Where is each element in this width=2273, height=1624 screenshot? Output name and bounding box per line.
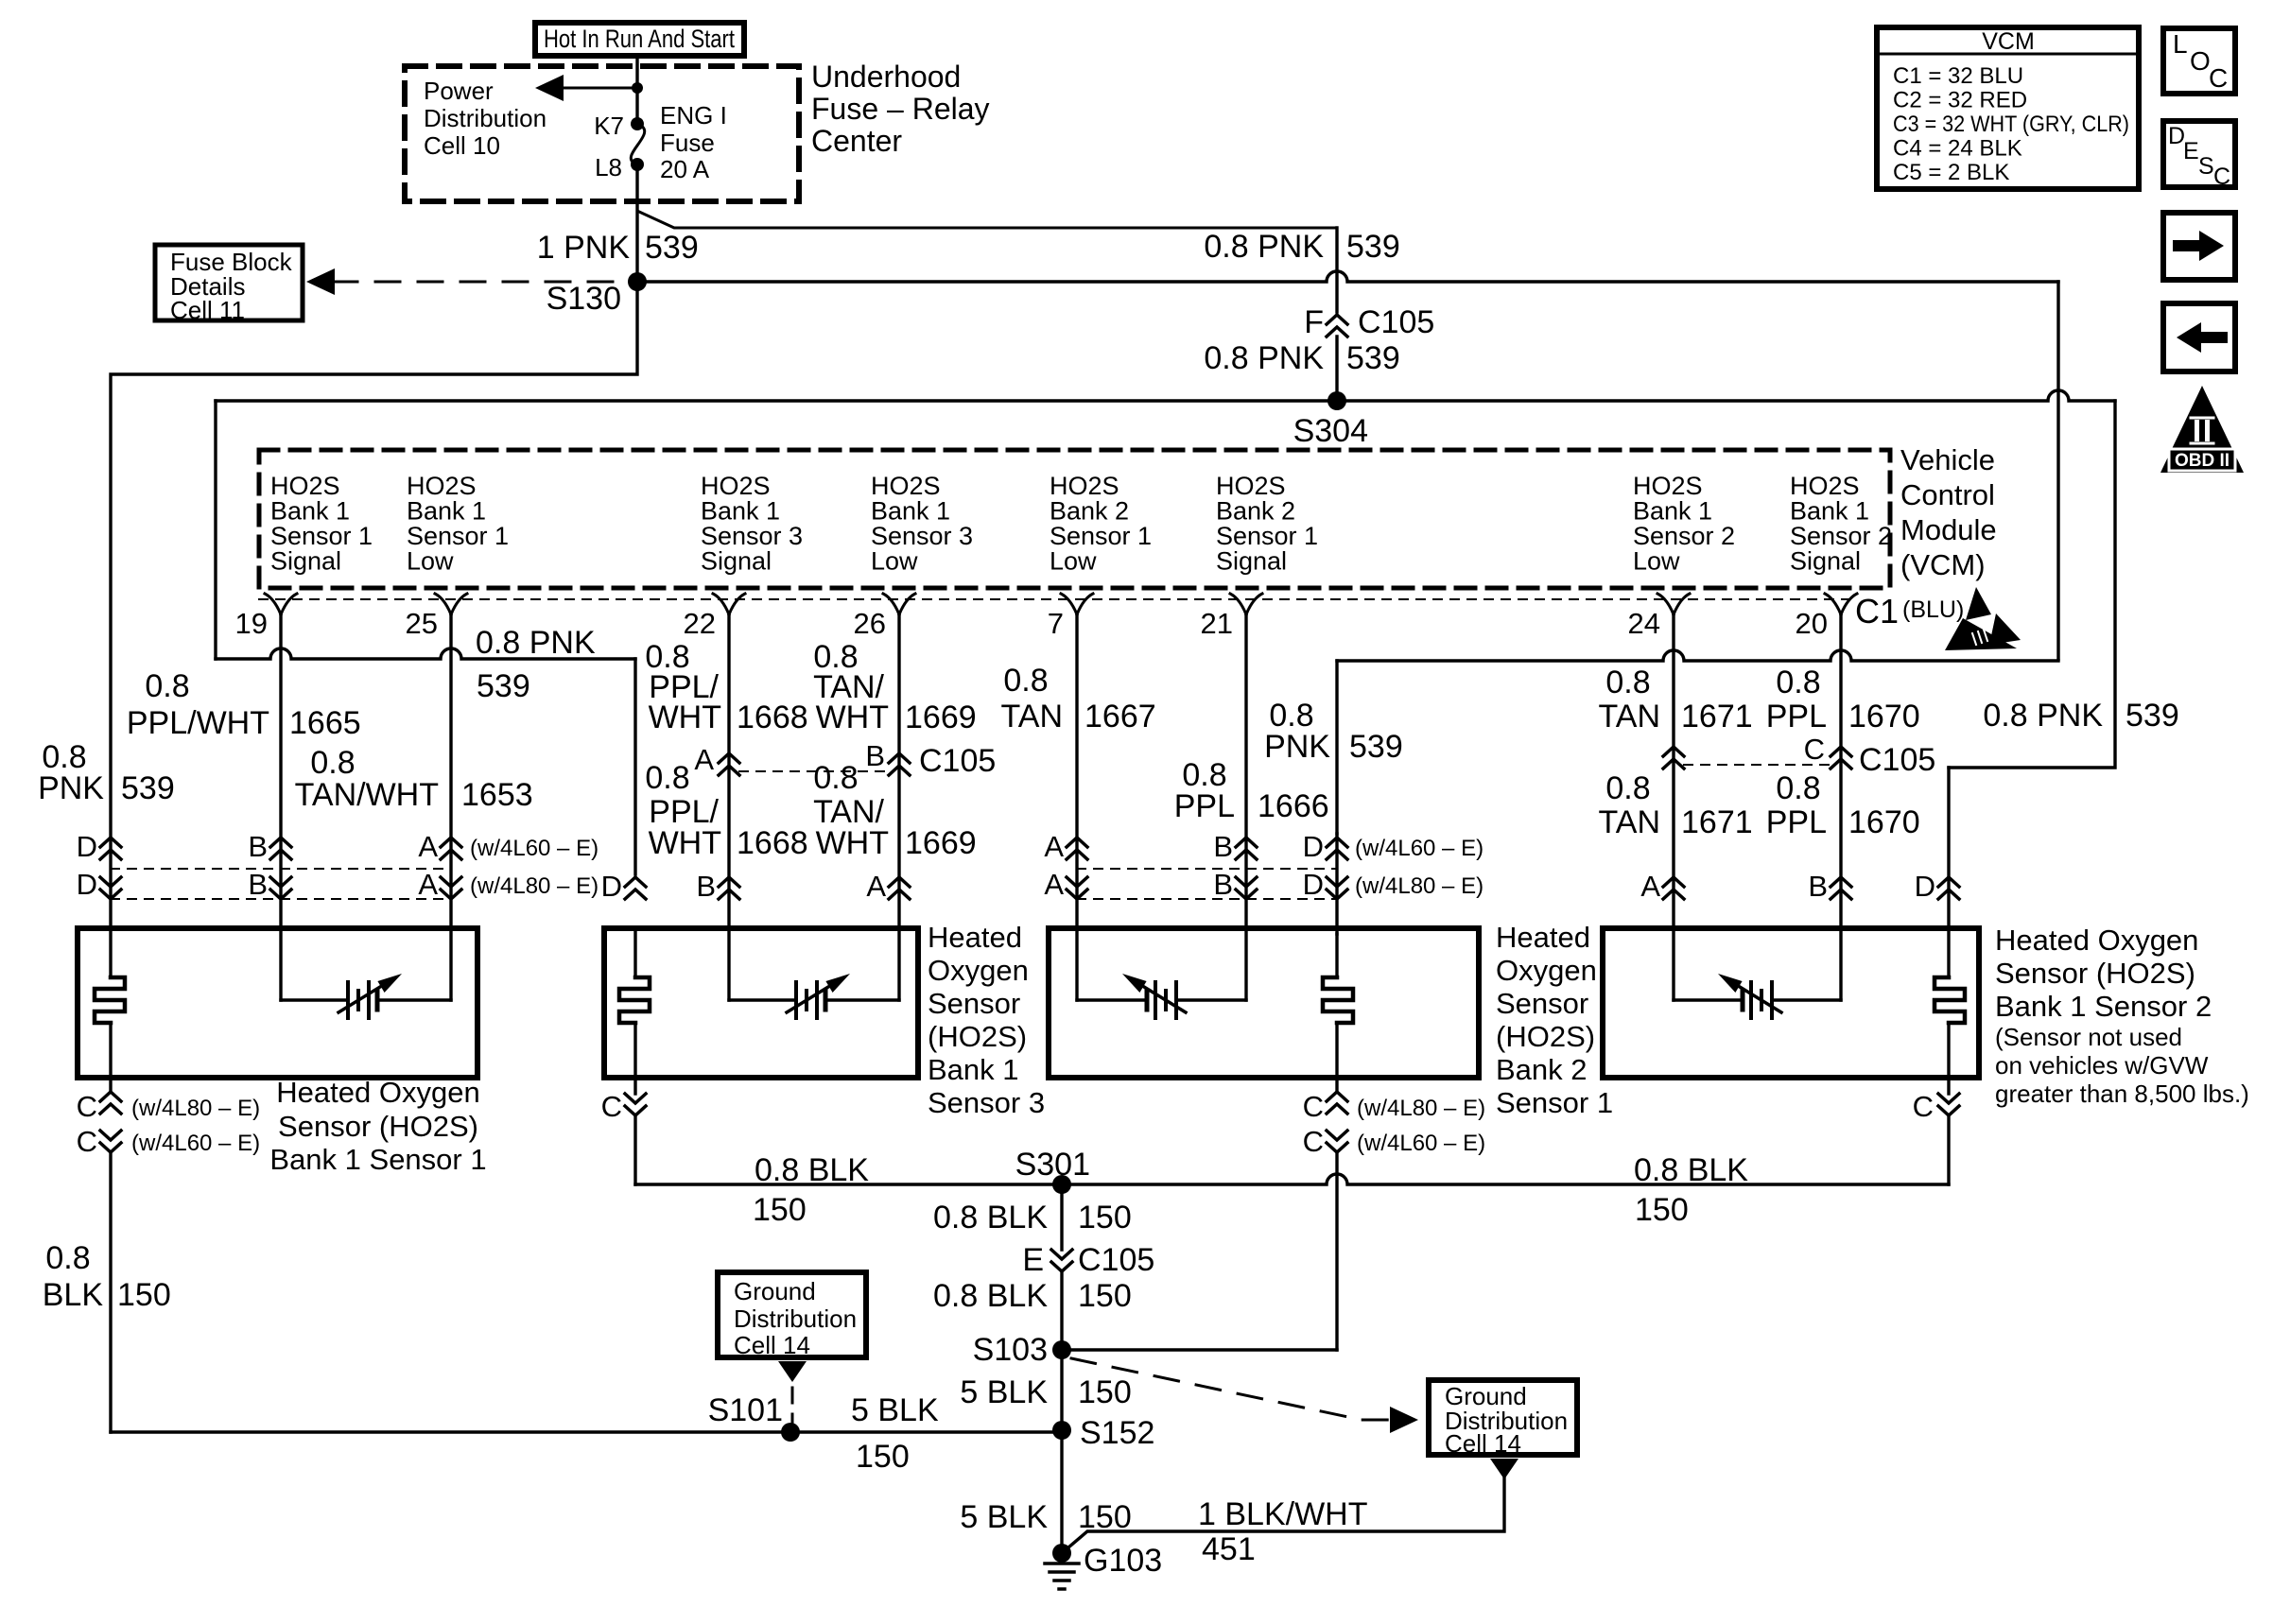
svg-text:1665: 1665 <box>289 705 361 741</box>
svg-text:C105: C105 <box>1078 1242 1154 1278</box>
svg-text:Bank 2: Bank 2 <box>1496 1053 1588 1086</box>
svg-text:D: D <box>1303 868 1324 901</box>
svg-text:C: C <box>2209 63 2228 93</box>
svg-text:Fuse: Fuse <box>660 129 715 157</box>
svg-text:L8: L8 <box>595 153 622 181</box>
svg-text:C1 = 32 BLU: C1 = 32 BLU <box>1893 63 2023 89</box>
svg-text:5 BLK: 5 BLK <box>960 1374 1048 1410</box>
svg-text:D: D <box>77 830 97 863</box>
svg-text:(w/4L60 – E): (w/4L60 – E) <box>1357 1131 1485 1156</box>
svg-text:L: L <box>2173 29 2188 59</box>
svg-text:1671: 1671 <box>1681 804 1753 840</box>
svg-text:PPL: PPL <box>1766 804 1827 840</box>
svg-text:539: 539 <box>121 770 175 806</box>
svg-text:Bank 1: Bank 1 <box>1790 497 1869 526</box>
svg-text:1666: 1666 <box>1258 788 1329 824</box>
svg-text:C: C <box>77 1090 97 1123</box>
svg-text:539: 539 <box>645 230 699 266</box>
svg-text:Sensor 1: Sensor 1 <box>407 522 509 550</box>
svg-text:PNK: PNK <box>38 770 104 806</box>
svg-text:150: 150 <box>753 1192 807 1228</box>
svg-text:C: C <box>1913 1090 1934 1123</box>
svg-text:(w/4L60 – E): (w/4L60 – E) <box>1355 836 1484 861</box>
svg-text:150: 150 <box>1078 1374 1132 1410</box>
svg-text:0.8 BLK: 0.8 BLK <box>933 1278 1048 1314</box>
svg-text:PPL: PPL <box>1174 788 1235 824</box>
svg-text:Signal: Signal <box>1790 547 1861 576</box>
svg-text:A: A <box>1044 868 1064 901</box>
svg-text:BLK: BLK <box>43 1277 104 1313</box>
svg-text:Distribution: Distribution <box>424 104 547 132</box>
svg-text:C: C <box>1303 1090 1324 1123</box>
svg-text:Bank 1: Bank 1 <box>1633 497 1712 526</box>
svg-text:Power: Power <box>424 77 494 105</box>
svg-text:7: 7 <box>1048 607 1064 640</box>
svg-text:0.8: 0.8 <box>1605 770 1650 806</box>
svg-text:TAN: TAN <box>1001 699 1063 734</box>
svg-text:Signal: Signal <box>1216 547 1287 576</box>
svg-text:Bank 1 Sensor 2: Bank 1 Sensor 2 <box>1995 990 2212 1023</box>
svg-text:B: B <box>248 830 268 863</box>
svg-text:539: 539 <box>1346 340 1400 376</box>
svg-text:Heated Oxygen: Heated Oxygen <box>1995 924 2198 957</box>
svg-text:Cell 10: Cell 10 <box>424 131 500 160</box>
svg-text:1669: 1669 <box>905 700 977 735</box>
svg-text:(HO2S): (HO2S) <box>1496 1020 1595 1053</box>
svg-text:Cell 14: Cell 14 <box>734 1331 810 1359</box>
svg-text:C1: C1 <box>1855 592 1899 631</box>
svg-text:D: D <box>1915 870 1935 903</box>
svg-text:C: C <box>2213 164 2230 190</box>
svg-text:O: O <box>2190 46 2211 76</box>
svg-text:0.8: 0.8 <box>1003 663 1048 699</box>
svg-text:Low: Low <box>407 547 454 576</box>
svg-text:S103: S103 <box>973 1332 1048 1368</box>
svg-text:(w/4L80 – E): (w/4L80 – E) <box>470 873 599 899</box>
svg-text:C2 = 32 RED: C2 = 32 RED <box>1893 88 2027 113</box>
svg-text:OBD II: OBD II <box>2175 451 2230 471</box>
svg-text:Center: Center <box>811 124 902 158</box>
svg-text:B: B <box>696 870 716 903</box>
svg-text:B: B <box>248 868 268 901</box>
svg-text:C105: C105 <box>1859 742 1935 778</box>
svg-text:HO2S: HO2S <box>1790 472 1860 500</box>
svg-text:HO2S: HO2S <box>1050 472 1119 500</box>
svg-text:Sensor 1: Sensor 1 <box>1050 522 1152 550</box>
svg-text:0.8 BLK: 0.8 BLK <box>933 1200 1048 1235</box>
svg-text:HO2S: HO2S <box>1633 472 1703 500</box>
svg-text:TAN: TAN <box>1599 804 1660 840</box>
svg-text:0.8 BLK: 0.8 BLK <box>755 1152 869 1188</box>
svg-text:C5 = 2 BLK: C5 = 2 BLK <box>1893 160 2009 185</box>
svg-text:0.8: 0.8 <box>1776 665 1820 700</box>
svg-text:A: A <box>1640 870 1660 903</box>
svg-text:0.8 PNK: 0.8 PNK <box>1204 340 1324 376</box>
svg-text:E: E <box>2183 138 2199 164</box>
svg-text:Control: Control <box>1900 478 1995 511</box>
svg-text:0.8 BLK: 0.8 BLK <box>1634 1152 1748 1188</box>
svg-text:WHT: WHT <box>816 700 889 735</box>
svg-text:(HO2S): (HO2S) <box>928 1020 1027 1053</box>
svg-text:S: S <box>2198 153 2214 180</box>
svg-text:(VCM): (VCM) <box>1900 548 1986 581</box>
svg-text:A: A <box>418 830 438 863</box>
svg-text:HO2S: HO2S <box>407 472 477 500</box>
svg-text:150: 150 <box>1078 1278 1132 1314</box>
svg-text:5 BLK: 5 BLK <box>851 1392 939 1428</box>
svg-text:D: D <box>1303 830 1324 863</box>
svg-text:(w/4L80 – E): (w/4L80 – E) <box>1357 1096 1485 1121</box>
svg-text:HO2S: HO2S <box>871 472 941 500</box>
svg-text:VCM: VCM <box>1982 28 2035 55</box>
svg-text:on vehicles w/GVW: on vehicles w/GVW <box>1995 1051 2209 1080</box>
svg-text:HO2S: HO2S <box>270 472 340 500</box>
svg-text:Bank 1: Bank 1 <box>407 497 486 526</box>
svg-text:Ground: Ground <box>734 1277 816 1305</box>
svg-text:D: D <box>601 870 622 903</box>
svg-text:Heated: Heated <box>1496 921 1590 954</box>
svg-text:Sensor 1: Sensor 1 <box>270 522 373 550</box>
svg-text:Module: Module <box>1900 513 1997 546</box>
svg-text:S301: S301 <box>1015 1147 1090 1183</box>
svg-text:Cell 11: Cell 11 <box>170 296 245 324</box>
svg-text:A: A <box>1044 830 1064 863</box>
svg-text:1 BLK/WHT: 1 BLK/WHT <box>1198 1496 1367 1532</box>
svg-text:S152: S152 <box>1080 1415 1154 1451</box>
svg-text:Sensor 2: Sensor 2 <box>1790 522 1892 550</box>
svg-text:Cell 14: Cell 14 <box>1445 1429 1521 1458</box>
svg-text:5 BLK: 5 BLK <box>960 1499 1048 1535</box>
svg-text:S101: S101 <box>708 1392 783 1428</box>
svg-text:Sensor (HO2S): Sensor (HO2S) <box>1995 957 2195 990</box>
svg-text:C: C <box>1804 733 1825 766</box>
svg-text:Signal: Signal <box>270 547 341 576</box>
svg-text:B: B <box>1213 830 1233 863</box>
svg-text:Bank 1 Sensor 1: Bank 1 Sensor 1 <box>269 1143 486 1176</box>
svg-text:TAN: TAN <box>1599 699 1660 734</box>
svg-text:Heated: Heated <box>928 921 1022 954</box>
svg-text:HO2S: HO2S <box>1216 472 1286 500</box>
svg-text:Underhood: Underhood <box>811 60 961 94</box>
svg-text:(Sensor not used: (Sensor not used <box>1995 1023 2182 1051</box>
svg-text:G103: G103 <box>1084 1543 1162 1579</box>
svg-text:26: 26 <box>854 607 886 640</box>
svg-text:Bank 1: Bank 1 <box>928 1053 1019 1086</box>
svg-text:1 PNK: 1 PNK <box>537 230 631 266</box>
svg-text:Distribution: Distribution <box>734 1304 857 1333</box>
svg-text:greater than 8,500 lbs.): greater than 8,500 lbs.) <box>1995 1080 2249 1108</box>
svg-text:Hot In Run And Start: Hot In Run And Start <box>544 25 735 53</box>
svg-text:S130: S130 <box>547 281 621 317</box>
svg-text:1668: 1668 <box>737 700 808 735</box>
svg-text:150: 150 <box>117 1277 171 1313</box>
svg-text:0.8: 0.8 <box>1605 665 1650 700</box>
svg-text:C: C <box>77 1125 97 1158</box>
svg-text:0.8: 0.8 <box>145 668 189 704</box>
svg-text:A: A <box>694 743 714 776</box>
svg-text:539: 539 <box>477 668 530 704</box>
svg-text:539: 539 <box>2126 698 2179 734</box>
svg-text:Bank 2: Bank 2 <box>1050 497 1129 526</box>
svg-text:24: 24 <box>1628 607 1660 640</box>
svg-text:539: 539 <box>1346 229 1400 265</box>
svg-text:F: F <box>1304 304 1324 340</box>
svg-text:150: 150 <box>1635 1192 1689 1228</box>
svg-text:0.8: 0.8 <box>645 760 689 796</box>
svg-text:A: A <box>418 868 438 901</box>
svg-text:TAN/WHT: TAN/WHT <box>295 777 439 813</box>
svg-text:22: 22 <box>684 607 716 640</box>
svg-text:0.8: 0.8 <box>1776 770 1820 806</box>
svg-text:HO2S: HO2S <box>701 472 771 500</box>
svg-text:Sensor 3: Sensor 3 <box>928 1086 1045 1119</box>
svg-text:0.8 PNK: 0.8 PNK <box>1983 698 2103 734</box>
svg-text:S304: S304 <box>1293 413 1368 449</box>
svg-text:25: 25 <box>406 607 438 640</box>
svg-text:1670: 1670 <box>1848 804 1920 840</box>
svg-text:0.8 PNK: 0.8 PNK <box>1204 229 1324 265</box>
svg-text:PNK: PNK <box>1264 729 1330 765</box>
svg-text:0.8: 0.8 <box>813 760 858 796</box>
svg-text:21: 21 <box>1201 607 1233 640</box>
svg-text:Bank 1: Bank 1 <box>701 497 780 526</box>
svg-text:Heated Oxygen: Heated Oxygen <box>276 1076 479 1109</box>
svg-text:1653: 1653 <box>461 777 533 813</box>
svg-text:D: D <box>77 868 97 901</box>
svg-text:Oxygen: Oxygen <box>1496 954 1597 987</box>
svg-text:WHT: WHT <box>649 700 721 735</box>
svg-text:C3 = 32 WHT (GRY, CLR): C3 = 32 WHT (GRY, CLR) <box>1893 112 2129 137</box>
svg-text:ENG I: ENG I <box>660 101 727 130</box>
svg-text:Fuse – Relay: Fuse – Relay <box>811 92 990 126</box>
svg-text:1670: 1670 <box>1848 699 1920 734</box>
svg-text:1668: 1668 <box>737 825 808 861</box>
svg-text:150: 150 <box>856 1439 910 1475</box>
svg-text:0.8: 0.8 <box>310 745 355 781</box>
svg-text:451: 451 <box>1202 1531 1256 1567</box>
svg-text:C: C <box>1303 1125 1324 1158</box>
svg-text:PPL: PPL <box>1766 699 1827 734</box>
svg-text:Low: Low <box>1633 547 1680 576</box>
svg-text:WHT: WHT <box>649 825 721 861</box>
svg-text:1671: 1671 <box>1681 699 1753 734</box>
svg-text:C4 = 24 BLK: C4 = 24 BLK <box>1893 136 2022 162</box>
svg-text:0.8: 0.8 <box>45 1240 90 1276</box>
svg-text:Bank 1: Bank 1 <box>270 497 350 526</box>
svg-text:20: 20 <box>1796 607 1828 640</box>
svg-text:Sensor 1: Sensor 1 <box>1216 522 1318 550</box>
svg-text:Bank 2: Bank 2 <box>1216 497 1295 526</box>
svg-text:WHT: WHT <box>816 825 889 861</box>
svg-text:C105: C105 <box>1358 304 1434 340</box>
svg-text:C105: C105 <box>919 743 996 779</box>
svg-text:(w/4L80 – E): (w/4L80 – E) <box>1355 873 1484 899</box>
svg-text:PPL/WHT: PPL/WHT <box>127 705 269 741</box>
svg-text:0.8 PNK: 0.8 PNK <box>476 625 596 661</box>
svg-text:B: B <box>1213 868 1233 901</box>
svg-text:(w/4L60 – E): (w/4L60 – E) <box>470 836 599 861</box>
svg-text:150: 150 <box>1078 1200 1132 1235</box>
svg-text:B: B <box>865 739 885 772</box>
svg-text:Vehicle: Vehicle <box>1900 443 1995 476</box>
svg-text:Sensor: Sensor <box>1496 987 1588 1020</box>
svg-text:B: B <box>1808 870 1828 903</box>
svg-text:Sensor (HO2S): Sensor (HO2S) <box>278 1110 478 1143</box>
svg-text:Sensor 1: Sensor 1 <box>1496 1086 1613 1119</box>
svg-text:Oxygen: Oxygen <box>928 954 1029 987</box>
svg-text:1667: 1667 <box>1084 699 1156 734</box>
svg-text:539: 539 <box>1349 729 1403 765</box>
svg-text:(BLU): (BLU) <box>1902 596 1964 623</box>
svg-text:Sensor 3: Sensor 3 <box>871 522 973 550</box>
svg-text:1669: 1669 <box>905 825 977 861</box>
svg-text:Sensor: Sensor <box>928 987 1020 1020</box>
svg-text:Signal: Signal <box>701 547 772 576</box>
svg-text:Sensor 3: Sensor 3 <box>701 522 803 550</box>
svg-text:A: A <box>866 870 886 903</box>
svg-text:Bank 1: Bank 1 <box>871 497 950 526</box>
svg-text:K7: K7 <box>594 112 624 140</box>
svg-text:Sensor 2: Sensor 2 <box>1633 522 1735 550</box>
svg-text:E: E <box>1022 1242 1044 1278</box>
svg-text:(w/4L80 – E): (w/4L80 – E) <box>131 1096 260 1121</box>
svg-text:C: C <box>601 1090 622 1123</box>
svg-text:Low: Low <box>871 547 918 576</box>
svg-text:(w/4L60 – E): (w/4L60 – E) <box>131 1131 260 1156</box>
svg-text:20 A: 20 A <box>660 155 710 183</box>
svg-text:Low: Low <box>1050 547 1097 576</box>
svg-text:19: 19 <box>235 607 268 640</box>
